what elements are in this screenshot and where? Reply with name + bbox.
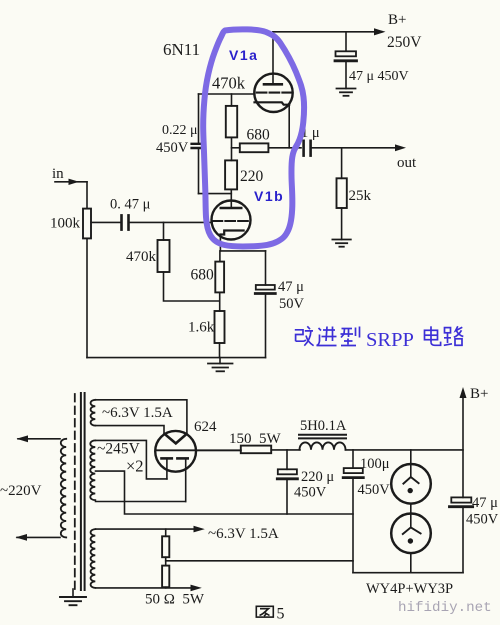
wire cathode to 680 lower	[219, 251, 221, 262]
arrowhead primary bottom	[16, 534, 28, 541]
wire 680 to 1.6k	[219, 292, 221, 311]
wire 470k top lead	[231, 94, 233, 106]
V1a cathode lead down	[288, 105, 290, 148]
capacitor C 0.47u right plate	[127, 215, 130, 229]
WY4P anode arms	[403, 477, 418, 484]
svg-text:×2: ×2	[126, 457, 144, 476]
V1a cathode bar	[255, 102, 290, 104]
choke 5H0.1A winding	[300, 442, 346, 449]
resistor R 470k grid leak	[158, 240, 170, 272]
wire 100k to 0.47u	[91, 221, 122, 223]
svg-text:0.22 μ: 0.22 μ	[162, 123, 198, 138]
rectifier tube 624 envelope	[155, 431, 196, 472]
V1a plate lead to B+	[272, 32, 274, 85]
capacitor C 0.22u plate top	[192, 143, 205, 145]
purple loop around V1a/V1b	[203, 29, 304, 246]
capacitor C 47u50V top plate	[256, 285, 275, 290]
resistor R 25k	[337, 178, 347, 208]
wire V1a grid node horizontal	[199, 93, 255, 95]
glyph 电	[425, 326, 441, 345]
svg-text:~220V: ~220V	[0, 483, 42, 499]
wire 470k bottom lead	[164, 272, 219, 301]
capacitor C 47u450V right bottom plate	[450, 505, 473, 508]
wire 100k bottom lead	[86, 238, 88, 357]
ground below C1	[337, 89, 356, 96]
capacitor C 1u right plate	[309, 141, 312, 156]
svg-text:47 μ 450V: 47 μ 450V	[349, 69, 409, 84]
resistor R 680 lower	[215, 262, 224, 293]
svg-text:1.6k: 1.6k	[188, 320, 215, 336]
glyph 路	[444, 326, 464, 345]
wire 680h left lead	[232, 147, 240, 149]
svg-text:~6.3V 1.5A: ~6.3V 1.5A	[208, 526, 279, 542]
svg-text:50 Ω 5W: 50 Ω 5W	[145, 592, 205, 608]
node cathode V1b wire right	[220, 250, 265, 252]
wire out line	[311, 147, 399, 149]
V1a grid (dashed)	[257, 92, 292, 94]
svg-text:0. 47 μ: 0. 47 μ	[110, 197, 151, 213]
wire 470k grid-leak top lead	[163, 222, 165, 240]
svg-text:B+: B+	[470, 386, 488, 402]
glyph 改	[295, 326, 314, 345]
glyph 型	[341, 327, 360, 346]
svg-text:25k: 25k	[349, 188, 372, 204]
arrowhead B+	[374, 28, 386, 35]
capacitor C 47u50V top lead	[265, 251, 267, 285]
arrowhead B+ bottom	[460, 387, 467, 398]
secondary winding 6.3V bottom	[91, 529, 96, 588]
V1b grid (dashed)	[213, 220, 250, 222]
wire B+ rail top	[273, 31, 378, 33]
secondary winding 245V	[90, 440, 95, 500]
wire heater top lead	[96, 400, 187, 434]
wire ground stem amp	[219, 358, 221, 364]
624 cathode line / output	[155, 449, 240, 451]
svg-text:450V: 450V	[358, 482, 391, 498]
wire in	[55, 181, 87, 183]
svg-text:450V: 450V	[466, 512, 499, 528]
resistor R 150 5W	[241, 446, 271, 454]
resistor R 1.6k	[215, 311, 225, 343]
svg-text:~245V: ~245V	[97, 441, 141, 458]
wire 1.6k bottom	[219, 343, 221, 358]
624 filament	[165, 434, 187, 444]
svg-text:250V: 250V	[387, 34, 422, 51]
wire 100u top lead	[352, 450, 354, 468]
transformer core line 1	[80, 393, 82, 590]
arrowhead out	[395, 144, 406, 151]
wire between regulators	[410, 504, 412, 528]
V1b anode lead	[230, 189, 232, 208]
resistor R 50ohm a	[162, 536, 169, 557]
624 plate bar 1	[162, 457, 172, 460]
svg-text:470k: 470k	[126, 249, 157, 265]
wire heater bottom lead	[96, 426, 165, 434]
svg-text:100μ: 100μ	[360, 456, 390, 472]
wire 0.47u to V1b grid	[129, 221, 213, 223]
svg-text:624: 624	[194, 419, 217, 435]
wire 245V top lead to plate1	[96, 440, 167, 479]
WY3P dot	[408, 538, 413, 543]
624 plate bar 2	[177, 457, 187, 460]
label 改进型 SRPP 电路 (blue)	[295, 326, 464, 351]
glyph 进	[317, 327, 337, 346]
wire 100u bottom lead / 0V vertical	[352, 479, 354, 573]
tube V1b envelope	[212, 201, 251, 240]
wire 150 to choke	[271, 449, 300, 451]
svg-text:SRPP: SRPP	[366, 329, 414, 351]
wire 0.22u branch lower	[198, 149, 200, 194]
svg-text:450V: 450V	[156, 140, 189, 156]
wire 245V center tap return	[96, 471, 354, 514]
capacitor C1 47u450V bottom plate	[335, 59, 357, 62]
svg-text:V1b: V1b	[254, 188, 284, 204]
resistor R 100k	[83, 209, 91, 239]
svg-text:680: 680	[191, 267, 215, 284]
wire humdinger junction	[166, 560, 353, 562]
resistor R 470k upper	[226, 106, 237, 137]
arrowhead primary top	[17, 435, 29, 442]
capacitor C 1u left plate	[302, 141, 305, 156]
wire C1 to ground	[345, 62, 347, 89]
wire primary top lead	[18, 438, 60, 440]
wire 0.22u to V1b anode node	[199, 193, 232, 195]
wire 50ohm b bottom	[165, 586, 167, 589]
ground main amp	[208, 364, 233, 372]
wire 47u50V bottom lead	[265, 295, 267, 358]
wire choke to B+ node	[346, 449, 464, 451]
svg-text:450V: 450V	[294, 485, 327, 501]
wire 624 output to 150	[196, 449, 241, 451]
capacitor C 220u top plate	[278, 469, 297, 474]
wire between 50ohm	[165, 557, 167, 565]
wire plate1 lead down	[166, 458, 168, 479]
resistor R 680 upper horizontal	[240, 143, 269, 152]
wire 220u bottom lead	[286, 480, 288, 514]
wire primary bottom lead	[17, 536, 60, 538]
wire 47u right bottom lead	[462, 508, 464, 573]
capacitor C 0.22u plate bottom	[192, 147, 205, 149]
ground transformer	[60, 597, 86, 605]
wire 50ohm tap	[165, 529, 167, 536]
svg-text:220 μ: 220 μ	[301, 469, 334, 485]
wire core to ground	[72, 589, 74, 597]
wire B+ vertical right	[462, 393, 464, 497]
svg-text:47 μ: 47 μ	[278, 279, 304, 295]
primary winding coil	[61, 439, 66, 538]
svg-text:~6.3V 1.5A: ~6.3V 1.5A	[102, 405, 173, 421]
wire B+ to C1	[345, 32, 347, 51]
WY3P anode arms	[403, 527, 421, 534]
choke 5H0.1A core lines	[299, 434, 346, 436]
capacitor C 100u bottom plate	[343, 476, 363, 479]
wire 220u top lead	[286, 450, 288, 469]
svg-text:470k: 470k	[212, 74, 246, 93]
wire 0V bottom rail	[353, 572, 463, 574]
wire 470k bottom to 220 top	[231, 137, 233, 160]
wire heater2 bottom lead	[96, 587, 195, 589]
regulator tube WY3P envelope	[391, 514, 431, 554]
capacitor C1 47u450V top plate	[336, 51, 357, 56]
arrowhead in	[69, 179, 80, 185]
arrowhead heater2 top	[194, 526, 205, 533]
capacitor C 220u bottom plate	[277, 477, 297, 480]
wire 245V bottom lead to plate2	[96, 501, 186, 503]
svg-text:680: 680	[247, 127, 271, 144]
svg-text:50V: 50V	[279, 296, 305, 312]
capacitor C 0.47u left plate	[120, 215, 123, 229]
wire 0.22u branch upper	[198, 94, 200, 143]
svg-text:47 μ: 47 μ	[472, 495, 498, 511]
WY4P dot	[408, 488, 413, 493]
label 图 5	[256, 606, 273, 617]
wire regulator top lead	[410, 450, 412, 477]
capacitor C 100u top plate	[344, 468, 363, 473]
capacitor C 47u450V right top plate	[451, 497, 471, 502]
wire heater2 top lead	[96, 528, 198, 530]
wire 680h right lead to 1u	[268, 147, 301, 149]
svg-text:150 5W: 150 5W	[229, 431, 282, 447]
wire in down to 100k	[86, 182, 88, 209]
resistor R 50ohm b	[162, 566, 169, 588]
svg-text:5H0.1A: 5H0.1A	[300, 418, 347, 434]
wire 25k bottom lead	[341, 208, 343, 240]
transformer core line 2	[84, 393, 86, 590]
svg-text:5: 5	[277, 606, 285, 623]
op tube V1a envelope	[254, 74, 292, 112]
wire bottom rail amp	[87, 357, 266, 359]
resistor R 220	[225, 160, 237, 189]
wire 25k top lead	[341, 148, 343, 179]
regulator tube WY4P envelope	[391, 464, 431, 504]
svg-text:100k: 100k	[50, 216, 81, 232]
V1b cathode bar	[220, 231, 243, 235]
svg-text:out: out	[397, 155, 417, 171]
svg-text:V1a: V1a	[229, 47, 258, 63]
wire plate2 lead down	[185, 458, 187, 501]
ground below 25k	[332, 240, 350, 247]
secondary winding 6.3V top	[91, 400, 96, 426]
svg-text:WY4P+WY3P: WY4P+WY3P	[366, 581, 453, 597]
svg-text:220: 220	[240, 168, 264, 185]
svg-text:B+: B+	[388, 12, 406, 28]
wire regulator bottom lead	[410, 553, 412, 573]
V1b anode bar	[221, 207, 241, 210]
V1b cathode lead down	[219, 235, 221, 251]
svg-text:in: in	[52, 166, 64, 182]
svg-text:6N11: 6N11	[163, 40, 200, 59]
transformer shield (dashed)	[74, 394, 76, 589]
capacitor C 47u50V bottom plate	[255, 292, 275, 295]
arrowhead heater2 bottom	[191, 585, 202, 592]
svg-text:hifidiy.net: hifidiy.net	[398, 600, 492, 616]
V1a plate bar	[264, 83, 282, 86]
